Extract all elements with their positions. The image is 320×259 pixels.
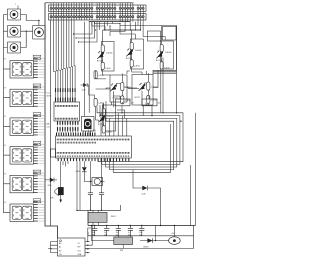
pin stub LS1: [17, 6, 19, 10]
svg-text:E: E: [5, 87, 7, 89]
svg-text:1-4k56: 1-4k56: [134, 65, 140, 67]
svg-text:1-4k56: 1-4k56: [105, 68, 111, 70]
IC U3 eeprom: [53, 238, 90, 256]
resistor: [102, 108, 105, 115]
resistor: [121, 83, 124, 91]
resistor: [94, 71, 97, 79]
svg-text:1N4007: 1N4007: [143, 246, 149, 248]
resistor: [94, 98, 97, 106]
junction dots mesh: [89, 22, 177, 122]
svg-text:1: 1: [15, 4, 16, 6]
svg-text:4k7: 4k7: [158, 103, 161, 105]
resistor: [130, 60, 133, 67]
svg-text:A2: A2: [59, 249, 61, 252]
svg-text:CD..: CD..: [47, 127, 51, 129]
svg-text:4148: 4148: [48, 185, 52, 187]
MCU U1 AT89C2051: [56, 132, 132, 161]
svg-text:10u: 10u: [116, 232, 119, 234]
svg-text:SCL: SCL: [78, 250, 82, 252]
svg-text:SPK: SPK: [50, 198, 54, 200]
wire right verticals: [97, 58, 196, 226]
connector J1 strip body: [49, 5, 147, 12]
resistor: [101, 62, 104, 69]
transistor BC557: [157, 52, 162, 57]
wire cell chain: [102, 40, 104, 71]
wire bottom rail: [76, 205, 120, 210]
loudspeaker SP1: [50, 187, 63, 202]
wire cell internals: [128, 73, 148, 105]
wire gnd rail: [88, 232, 194, 236]
svg-text:WP: WP: [78, 247, 82, 249]
connector J2 pins: [50, 12, 144, 22]
transistor cell box: [98, 104, 116, 134]
buzzer LS4: [33, 26, 46, 40]
wire display data bus vertical: [49, 20, 51, 226]
svg-text:10u: 10u: [139, 232, 142, 234]
svg-text:1u: 1u: [104, 232, 106, 234]
svg-text:BC557: BC557: [156, 60, 162, 62]
svg-text:E: E: [5, 202, 7, 204]
capacitor bank C5-C10: [92, 225, 144, 236]
resistor R11 box: [142, 99, 157, 106]
transistor cell box: [106, 74, 131, 105]
svg-text:E: E: [5, 116, 7, 118]
wire MCU bottom drops: [63, 161, 80, 210]
wire extra drop lines: [74, 22, 98, 42]
wire cell internals: [106, 74, 122, 105]
svg-text:4094: 4094: [47, 95, 52, 97]
diode D3: [76, 161, 89, 181]
svg-text:1-4k56k: 1-4k56k: [165, 52, 172, 54]
wire right corner drop: [190, 165, 192, 226]
buzzer LS1: [8, 9, 21, 20]
wire R10 R11 feeds: [113, 96, 152, 116]
resistor: [102, 126, 105, 133]
wire xtal drive: [91, 161, 102, 192]
connector CN1 power jack: [169, 226, 181, 245]
transistor cell box: [97, 40, 114, 71]
svg-text:4148: 4148: [82, 89, 86, 91]
svg-text:A0: A0: [59, 242, 61, 245]
transistor BC557: [98, 53, 103, 58]
wire K1 feed: [84, 22, 86, 117]
resistor: [160, 44, 163, 51]
svg-text:1-4k56: 1-4k56: [164, 67, 170, 69]
svg-text:E: E: [5, 174, 7, 176]
junction dot jack: [174, 225, 176, 227]
wire bottom rail 2: [85, 226, 194, 249]
display DIS1: [4, 55, 45, 78]
svg-text:1-4k56k: 1-4k56k: [106, 53, 113, 55]
transistor BC557: [99, 116, 104, 121]
display DIS5: [4, 170, 45, 193]
svg-text:4148: 4148: [76, 171, 80, 173]
connector J1 pins: [50, 3, 144, 12]
capacitor C3: [88, 193, 93, 211]
svg-text:E: E: [5, 59, 7, 61]
trimmer TR1: [92, 226, 133, 253]
svg-text:BC557: BC557: [126, 58, 132, 60]
svg-text:A1: A1: [59, 246, 61, 249]
wire eeprom connections: [51, 242, 53, 253]
diode D4 left: [45, 178, 57, 188]
IC U2 driver 4094: [54, 102, 80, 132]
socket K1: [82, 117, 95, 136]
display DIS2: [4, 84, 45, 107]
svg-text:4148: 4148: [142, 194, 146, 196]
wire left main vertical bus: [45, 3, 58, 238]
junction dot tr: [91, 225, 93, 227]
svg-text:IC2: IC2: [47, 93, 51, 95]
transistor cell box: [128, 73, 157, 105]
wire cell chain: [161, 40, 163, 70]
connector J2 strip body: [49, 14, 147, 21]
svg-text:TR8: TR8: [120, 250, 124, 252]
connector MCU left stub: [51, 149, 56, 157]
resistor R10 box: [116, 99, 131, 106]
svg-text:1-4k56k: 1-4k56k: [135, 50, 142, 52]
resistor: [130, 42, 133, 49]
transistor BC557: [111, 85, 116, 90]
wire buzzer bus left: [4, 15, 8, 214]
crystal X1: [89, 178, 105, 186]
transistor BC557: [127, 50, 132, 55]
wire main power bus: [88, 222, 196, 225]
svg-text:4k7: 4k7: [131, 103, 134, 105]
buzzer LS3: [8, 42, 21, 53]
junction dots rail: [76, 210, 102, 211]
display DIS4: [4, 141, 45, 164]
transistor cell box: [156, 40, 174, 70]
svg-text:E: E: [5, 145, 7, 147]
junction dots buzzers: [26, 20, 40, 32]
diode D5 1N4148: [142, 186, 162, 227]
resistor: [121, 96, 124, 104]
resistor: [147, 82, 150, 90]
wire speaker feed: [60, 161, 62, 199]
transistor cell box: [126, 38, 144, 70]
svg-text:VC: VC: [78, 243, 81, 245]
svg-text:1-4k56: 1-4k56: [151, 100, 157, 102]
svg-text:AB..: AB..: [47, 123, 51, 126]
display DIS3: [4, 113, 45, 136]
buzzer LS2: [8, 26, 21, 38]
svg-text:1-4k56: 1-4k56: [106, 131, 112, 133]
svg-text:BC557: BC557: [97, 60, 103, 62]
capacitor C4: [99, 193, 104, 211]
wire cell chain: [131, 38, 133, 70]
junction dots right bus: [121, 112, 181, 122]
svg-text:1-4k56: 1-4k56: [125, 100, 131, 102]
svg-text:SDA: SDA: [78, 253, 82, 256]
wire cell chain: [103, 104, 105, 132]
resistor: [147, 95, 150, 103]
resistor: [160, 62, 163, 69]
diode D2: [81, 83, 95, 98]
diode D1 1N4007: [140, 226, 169, 249]
svg-text:BC557: BC557: [135, 97, 141, 99]
resistor: [101, 45, 104, 52]
transistor BC557: [140, 85, 145, 90]
display DIS6: [4, 199, 45, 222]
wire buzzer interconnect: [21, 15, 39, 48]
svg-text:1-4k56k: 1-4k56k: [107, 116, 114, 118]
regulator IC4 78L05: [88, 210, 116, 225]
svg-text:1u: 1u: [128, 232, 130, 234]
svg-text:78L05: 78L05: [111, 216, 116, 218]
wire bus J2 to IC2 staircase: [54, 20, 76, 102]
svg-text:1 5 2 0: 1 5 2 0: [88, 129, 96, 133]
wire top supply bus: [45, 2, 134, 4]
